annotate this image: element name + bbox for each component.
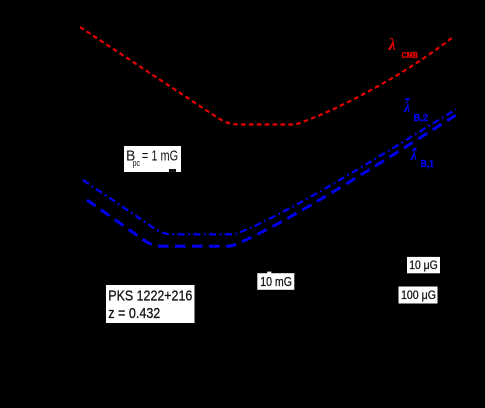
svg-text:B,2: B,2 [414,113,429,124]
annotation box PKS 1222+216 / z = 0.432 [106,285,195,323]
svg-text:PKS 1222+216: PKS 1222+216 [108,287,192,304]
annotation box 10 mG [257,273,294,290]
label lambda~_B,2 (blue) [403,98,428,124]
svg-text:= 1 mG: = 1 mG [142,148,178,165]
svg-text:z = 0.432: z = 0.432 [108,305,160,322]
label lambda_CMB (red) [388,35,419,60]
curve lambda_B,2 (blue dash-dot, upper) [83,110,456,235]
svg-text:λ: λ [403,100,411,116]
svg-text:10 mG: 10 mG [260,275,292,289]
svg-text:pc: pc [133,158,141,168]
annotation box B_pc = 1 mG [124,146,181,172]
label lambda~_B,1 (blue) [410,148,435,170]
annotation box 10 uG [407,257,440,273]
curve lambda_CMB (red dashed) [80,27,454,125]
annotation box 100 uG [399,287,438,304]
svg-text:10 μG: 10 μG [409,259,438,272]
artifact notch above 10 mG box [267,272,271,274]
artifact mark inside B_pc box [169,169,176,172]
svg-text:λ: λ [388,35,396,54]
svg-text:B,1: B,1 [421,159,435,170]
curve lambda_B,1 (blue long-dash, lower) [87,115,456,246]
svg-text:CMB: CMB [402,51,419,60]
svg-text:100 μG: 100 μG [401,289,436,302]
